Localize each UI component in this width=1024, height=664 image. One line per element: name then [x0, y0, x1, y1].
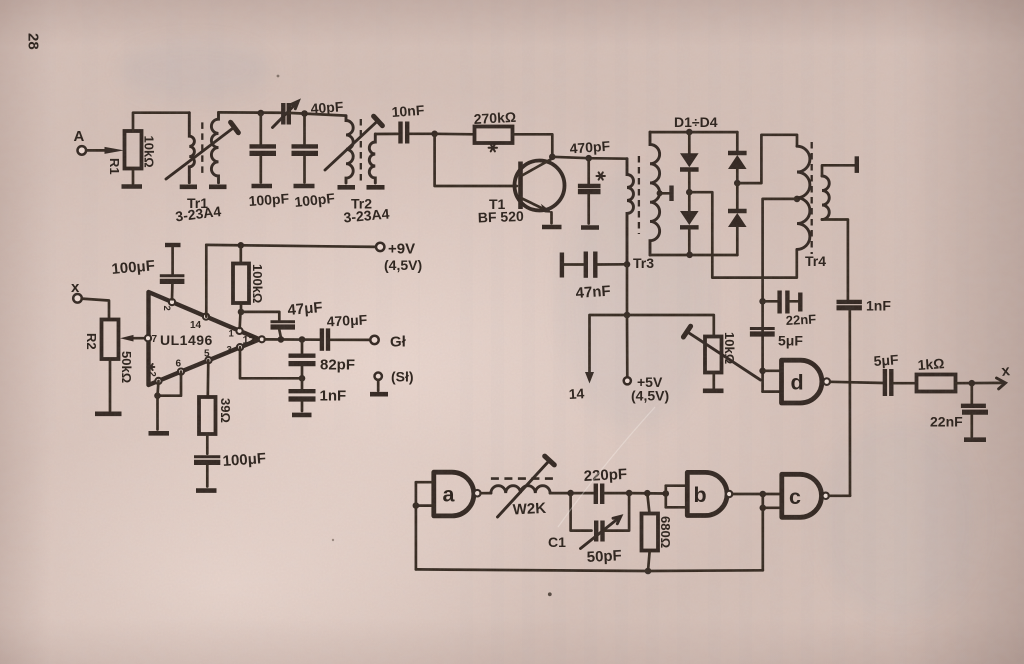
wire C1 branch — [571, 493, 592, 530]
wire node to pin 1 — [238, 312, 242, 328]
transformer Tr2 secondary winding — [369, 134, 375, 183]
resistor 1k — [917, 375, 956, 392]
resistor 100k — [239, 245, 242, 263]
node Gl loudspeaker terminal — [370, 336, 378, 344]
node junction gate a input — [413, 502, 420, 509]
resistor 270k — [475, 127, 513, 144]
node junction 470pF — [585, 155, 592, 162]
resistor 39 ohm — [199, 397, 216, 434]
potentiometer 10k wiring — [627, 315, 714, 337]
ground below Tr1 primary — [180, 185, 197, 190]
ground below Tr2 primary — [338, 185, 356, 190]
ground below R1 — [122, 184, 143, 189]
ground below T1 emitter — [542, 225, 562, 230]
wiper arrow of 10k pot — [690, 333, 761, 380]
pin 2 lower with asterisk — [155, 378, 161, 384]
capacitor 22nF at Tr4 tap — [763, 300, 778, 303]
wire 100k bottom to node — [240, 303, 243, 312]
tuning arrow of Tr2 — [325, 122, 377, 171]
node junction Tr4 primary centre tap — [794, 196, 801, 203]
node junction gate d input — [759, 368, 766, 375]
ground below Tr1 secondary — [209, 185, 227, 190]
node junction at 100pF no.2 — [301, 110, 308, 117]
wire Tr1 secondary to 40pF node — [219, 111, 284, 114]
node junction D3-D4 midpoint — [734, 180, 741, 187]
wire 39 ohm to 100uF — [206, 434, 209, 454]
wire collector line to 470pF node and Tr3 — [552, 157, 627, 159]
T1 base bar — [518, 162, 523, 210]
wire R2 wiper to pin 7 — [133, 337, 145, 340]
wire 1nF down to gate c output — [848, 310, 851, 496]
ground below op-amp — [149, 431, 170, 436]
transformer Tr3 secondary winding — [650, 132, 660, 255]
wire R1 top to Tr1 primary — [133, 113, 189, 131]
capacitor 100uF lower electrolytic — [194, 455, 220, 458]
wire 680 ohm bottom — [648, 551, 650, 572]
wire T1 emitter down — [550, 212, 553, 223]
gate c (NAND) — [782, 474, 822, 517]
node junction 22nF / carrier line — [759, 298, 766, 305]
capacitor 1nF at Tr4 — [837, 300, 862, 304]
wire gate a output to coil — [481, 492, 491, 495]
wire 40pF to Tr2 and 100pF no.2 — [289, 113, 346, 116]
wire Tr2 secondary to 10nF — [375, 133, 397, 136]
wire D3-D4 mid to Tr4 primary top — [737, 135, 797, 183]
node junction left of 220pF — [567, 490, 574, 497]
node junction collector — [549, 154, 556, 161]
wires gate b input stubs — [664, 486, 667, 508]
asterisk mark at 470pF — [597, 172, 605, 179]
capacitor 82pF — [301, 340, 304, 354]
T1 collector stroke — [522, 159, 552, 176]
wire C1 to right node — [605, 493, 629, 530]
node junction at 100pF no.1 — [258, 110, 265, 117]
node junction gate b input — [663, 490, 670, 497]
transformer Tr2 primary winding — [346, 116, 353, 183]
tuning arrow of Tr1 — [166, 129, 233, 180]
capacitor 470pF — [587, 158, 590, 183]
node junction bottom rail — [686, 252, 693, 259]
capacitor 100uF upper electrolytic — [165, 243, 181, 247]
wire R1 bottom — [132, 169, 135, 184]
potentiometer 10k — [705, 337, 722, 373]
diode D2 — [688, 192, 691, 211]
wire 10nF to base node — [410, 132, 435, 135]
capacitor 47nF — [560, 253, 564, 278]
wire node to gate b — [629, 492, 666, 495]
pin 7 — [145, 335, 151, 341]
transformer Tr1 primary winding — [189, 113, 194, 183]
wire Tr4 secondary top to terminal bar — [822, 165, 857, 176]
wire feedback pin 3 — [240, 347, 302, 378]
wire ring bottom rail — [650, 254, 737, 257]
paper scratch — [558, 407, 655, 527]
wires gate d input stubs — [763, 369, 782, 372]
capacitor 5uF output coupling — [883, 369, 887, 396]
op-amp U1 UL1496 triangle — [149, 292, 260, 385]
node junction top rail — [686, 129, 693, 136]
node junction 82pF on output — [299, 336, 306, 343]
gate b (NAND) — [687, 472, 727, 515]
capacitor 22nF at output — [970, 383, 973, 403]
pin 5 — [205, 357, 211, 363]
node junction base/270k — [431, 131, 438, 138]
capacitor 100pF no.2 — [303, 114, 306, 144]
R2 wiper arrow — [120, 335, 134, 342]
node junction 82pF/1nF/feedback — [299, 375, 306, 382]
wire lower pin 2 to ground — [158, 381, 159, 430]
node junction output — [969, 380, 976, 387]
ground below 100pF no.1 — [252, 184, 273, 189]
wire 5uF to 1k — [894, 382, 917, 385]
inductor W2K dashed core — [491, 477, 556, 480]
wire gate d output — [830, 382, 884, 383]
wire A to R1 wiper — [86, 149, 105, 152]
wire Tr4 secondary bottom to 1nF — [822, 220, 848, 300]
paper speck — [548, 592, 552, 596]
wire top rail to D1 — [688, 132, 691, 154]
ground below 10k pot — [703, 388, 724, 393]
Tr3 core — [638, 156, 640, 234]
wire D1-D2 mid to Tr4 primary bottom — [689, 192, 797, 277]
pin 3 — [237, 344, 243, 350]
node junction pin14 branch — [624, 312, 631, 319]
wire 270k right to collector node — [513, 134, 553, 157]
wire gate c output to 1nF riser — [829, 494, 850, 497]
ground below output 22nF — [964, 437, 986, 442]
pin 12 output — [259, 336, 265, 342]
node junction 47uF on output — [278, 336, 285, 343]
wire gate a input to feedback — [415, 482, 418, 569]
capacitor 5uF electrolytic — [761, 301, 764, 391]
node junction gate c input lower — [760, 505, 767, 512]
transistor T1 circle — [515, 161, 565, 211]
trimmer capacitor C1 50pF — [594, 521, 598, 542]
wire Sl terminal to ground — [377, 380, 380, 391]
wire pin 14 to +9V rail — [205, 245, 208, 317]
wire Tr3 node down — [626, 264, 629, 315]
gate d (NAND) — [782, 360, 822, 403]
arrow head output x — [997, 378, 1006, 389]
diode D4 — [736, 183, 739, 211]
wire to +5V terminal — [626, 315, 629, 377]
potentiometer R1 wiper arrow — [105, 147, 125, 154]
pin 14 — [203, 314, 209, 320]
transformer Tr4 primary winding — [797, 146, 810, 249]
wire ring top rail — [650, 131, 737, 134]
node junction D1-D2 midpoint — [686, 189, 693, 196]
diode D3 — [736, 132, 739, 153]
ground below Sl — [370, 392, 388, 397]
wire oscillator bottom feedback — [416, 569, 763, 571]
node junction 680 ohm top — [644, 490, 651, 497]
wire and arrow to pin 14 — [590, 315, 628, 373]
node +9V supply terminal — [376, 243, 384, 251]
wire node to 270k left — [435, 132, 475, 135]
wires gate c input stubs — [763, 493, 782, 496]
wire pot bottom to ground — [712, 373, 715, 389]
wire 1k to output x — [956, 382, 1005, 385]
wire coil to 220pF node — [550, 492, 593, 495]
resistor 680 ohm — [647, 493, 649, 513]
tuning arrow of W2K — [498, 462, 549, 517]
capacitor 47uF electrolytic — [241, 312, 279, 320]
ground below Tr2 secondary — [367, 185, 385, 190]
wires gate a input stubs — [416, 481, 434, 484]
T1 emitter stroke with arrow — [522, 199, 545, 210]
inductor W2K — [491, 486, 550, 493]
capacitor 470uF electrolytic — [320, 328, 324, 350]
capacitor 220pF — [594, 484, 598, 505]
Tr4 core — [811, 142, 813, 254]
diode D1 — [680, 153, 699, 167]
ground below 100uF lower — [196, 488, 217, 493]
resistor R1 — [125, 131, 142, 169]
transformer Tr3 primary winding — [627, 159, 634, 265]
node junction rail / 100k — [238, 242, 245, 249]
ground below 1nF — [292, 413, 312, 418]
ground below 100pF no.2 — [294, 184, 315, 189]
capacitor 1nF op-amp — [301, 378, 304, 388]
wire x to R2 — [82, 299, 109, 320]
pin 2 — [169, 299, 175, 305]
capacitor 10nF — [398, 122, 402, 144]
wire gate c input down to feedback — [761, 494, 764, 570]
node junction 680 ohm bottom — [645, 568, 652, 575]
node Sl terminal — [375, 373, 382, 380]
capacitor 100pF no.1 — [259, 113, 262, 144]
Tr1 core — [201, 122, 203, 176]
potentiometer R2 — [102, 320, 119, 360]
node junction right of 220pF — [626, 490, 633, 497]
asterisk mark below 270k — [489, 144, 497, 151]
wire node down to T1 base — [435, 134, 517, 186]
gate a (NAND) — [434, 472, 474, 516]
pin 6 — [178, 369, 184, 375]
ground below 470pF — [581, 225, 599, 230]
wire pin 5 to 39 ohm — [206, 360, 209, 397]
wire gate b output — [732, 493, 762, 496]
trimmer capacitor 40pF — [281, 103, 285, 125]
wire Tr4 centre tap to 22nF node — [763, 199, 797, 301]
node junction 100k/47uF/pin1 — [238, 309, 245, 316]
pin 1 — [236, 328, 242, 334]
ground below R2 — [95, 411, 122, 416]
Tr2 core — [360, 119, 362, 181]
wire pin 6 — [158, 372, 182, 396]
transformer Tr1 secondary winding — [211, 112, 218, 182]
wire 470uF to Gl terminal — [331, 338, 371, 341]
node junction gate c input upper — [760, 491, 767, 498]
wire op-amp output line — [265, 338, 320, 341]
transformer Tr4 secondary winding — [822, 176, 829, 220]
wire +9V rail — [206, 245, 376, 247]
wire R2 bottom — [109, 359, 112, 411]
Tr3 secondary centre tap terminal — [657, 190, 663, 196]
node junction pin6/pin2 wires — [154, 392, 161, 399]
node junction Tr3 bottom / 47nF — [624, 261, 631, 268]
node +5V supply terminal — [624, 377, 631, 384]
